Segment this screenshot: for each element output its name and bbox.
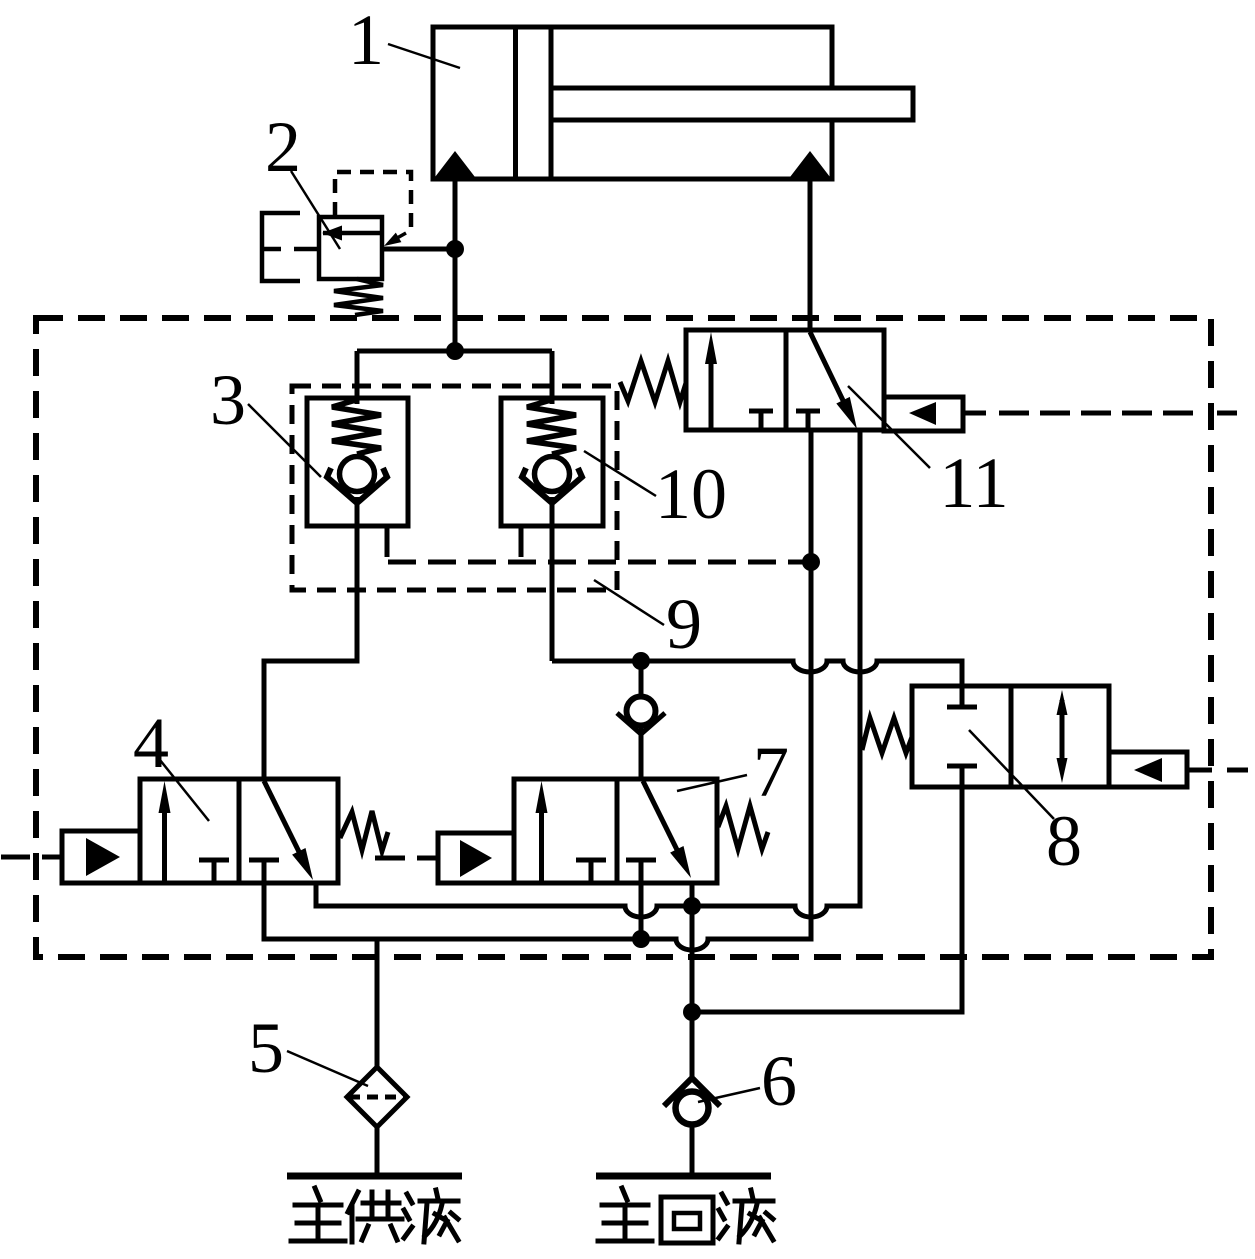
valve 8 pilot actuator [1109, 752, 1187, 787]
directional valve 8 body [912, 686, 1109, 787]
valve 4 spring [340, 811, 388, 851]
svg-text:11: 11 [939, 443, 1008, 523]
valve 11 pilot dashed line [963, 411, 986, 416]
junction node manifold [632, 652, 650, 670]
leader line 2 [291, 171, 340, 249]
svg-text:2: 2 [265, 107, 301, 187]
valve 4 flow arrow head [159, 781, 171, 813]
junction node at relief valve outlet [446, 240, 464, 258]
valve 4 pilot dashes [1, 855, 64, 860]
svg-text:8: 8 [1046, 801, 1082, 881]
wire: tee to check valves [357, 351, 552, 404]
valve 11 flow arrow head [705, 332, 717, 364]
svg-text:1: 1 [348, 0, 384, 80]
wire: supply branch down to filter [375, 939, 380, 1067]
check valve 3 pilot stub [385, 526, 390, 557]
svg-text:4: 4 [133, 703, 169, 783]
wire: filter to main supply [375, 1127, 380, 1176]
wire: check valve 10 outlet [550, 497, 555, 661]
junction node line B [632, 930, 650, 948]
relief valve 2 spring [334, 279, 383, 315]
directional valve 7 body [514, 779, 717, 883]
valve 4 pilot actuator [62, 831, 140, 883]
valve 11 diagonal arrow head [836, 397, 857, 429]
dashed enclosure 9 [292, 386, 617, 590]
svg-text:5: 5 [248, 1008, 284, 1088]
leader line 4 [160, 760, 209, 821]
cylinder port arrow left [434, 151, 477, 179]
main supply port ground [287, 1173, 462, 1180]
pilot-operated check valve 10 [501, 398, 603, 526]
cylinder port arrow right [789, 151, 832, 179]
leader line 8 [969, 730, 1054, 819]
wire: valve 7 left port down [639, 883, 644, 939]
leader line 9 [594, 580, 664, 625]
pilot dash between valve 4 and valve 7 [375, 856, 438, 861]
valve 8 spring [862, 718, 912, 753]
valve 7 pilot actuator [438, 833, 514, 883]
text main supply 主供液 [291, 1188, 345, 1241]
wire: relief valve outlet [382, 247, 455, 252]
valve 4 diagonal arrow head [292, 848, 313, 880]
filter 5 [347, 1067, 407, 1127]
wire: check valve 3 outlet to valve 4 [264, 497, 357, 779]
relief valve 2 pilot dashed line [335, 172, 411, 229]
valve 8 double arrow heads [1057, 690, 1068, 715]
valve 11 pilot actuator [884, 397, 963, 431]
wire: cylinder right port to valve 11 [808, 179, 813, 330]
leader line 7 [677, 775, 747, 791]
valve 8 pilot line [1187, 768, 1212, 773]
pilot-operated check valve 3 [307, 398, 408, 526]
valve 7 spring [718, 806, 768, 849]
valve 11 spring [620, 361, 686, 402]
svg-text:10: 10 [655, 454, 727, 534]
relief valve 2 tank bracket [262, 213, 319, 281]
svg-text:3: 3 [210, 360, 246, 440]
wire: cylinder left port to node [453, 179, 458, 351]
wire: manifold line to valve 8 with crossovers [552, 661, 962, 686]
wire: check valve 6 to main return [690, 1126, 695, 1176]
leader line 3 [248, 404, 321, 477]
wire: line B valve4 left port to valve 11 left port with crossover [264, 430, 811, 950]
valve 7 diagonal arrow head [670, 846, 691, 878]
svg-text:7: 7 [753, 732, 789, 812]
valve 7 flow arrow head [536, 781, 548, 813]
wire: valve 7 right port down to return [690, 883, 695, 1078]
leader line 10 [584, 451, 656, 496]
junction node above check valves [446, 342, 464, 360]
wire: line A valve4 right port to valve 11 right port with crossovers [316, 430, 860, 917]
wire: return line to valve 8 bottom [692, 787, 962, 1012]
junction node return [683, 1003, 701, 1021]
leader line 1 [388, 44, 460, 68]
text main return 主回液 [598, 1188, 652, 1241]
small check valve [627, 697, 656, 726]
svg-text:9: 9 [666, 584, 702, 664]
directional valve 11 body [686, 330, 884, 430]
hydraulic cylinder 1 [433, 27, 913, 179]
leader line 6 [698, 1088, 760, 1102]
check valve 10 pilot stub [519, 526, 524, 557]
relief valve 2 pilot arrow [390, 233, 406, 242]
wire: small check valve to valve 7 [639, 728, 644, 779]
junction node pilot line [802, 553, 820, 571]
pilot dashed line from valve 11 to check valves [388, 560, 811, 565]
outer dashed enclosure (valve block) [36, 318, 1211, 957]
wire: node to small check valve [639, 661, 644, 696]
svg-text:6: 6 [761, 1041, 797, 1121]
directional valve 4 body [140, 779, 338, 883]
relief valve 2 body [319, 217, 382, 279]
check valve 6 [664, 1078, 720, 1106]
junction node line A [683, 897, 701, 915]
leader line 11 [848, 386, 930, 468]
main return port ground [596, 1173, 771, 1180]
leader line 5 [287, 1051, 368, 1086]
